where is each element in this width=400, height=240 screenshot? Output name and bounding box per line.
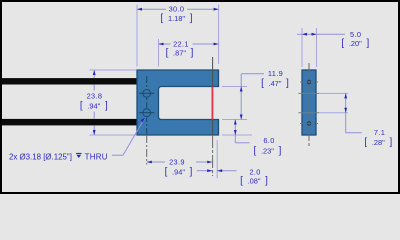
dimension 7.1 right [320,92,348,94]
extension line right edge (x=218.6) above part [218,5,220,65]
svg-text:[ .47" ]: [ .47" ] [261,78,289,89]
svg-text:[ .87" ]: [ .87" ] [166,48,194,59]
dimension 23.9 bottom [147,161,165,163]
wire bottom [2,119,138,126]
svg-text:11.9: 11.9 [268,69,283,78]
optical axis red line [211,87,213,120]
svg-text:[ .20" ]: [ .20" ] [341,38,369,49]
svg-text:23.8: 23.8 [87,92,103,101]
depth symbol [76,153,81,158]
side view hole centerline bottom [299,112,320,114]
svg-text:23.9: 23.9 [169,158,185,167]
dimension 11.9 [222,86,247,88]
svg-text:[ .28" ]: [ .28" ] [364,137,392,148]
svg-text:[ .23" ]: [ .23" ] [253,146,281,157]
dimension 23.8 left [90,69,137,71]
svg-text:5.0: 5.0 [350,30,361,39]
front view: U-shaped sensor body [137,70,219,135]
side view aperture top [307,80,310,83]
svg-text:2.0: 2.0 [249,168,260,177]
svg-text:[ 1.18" ]: [ 1.18" ] [161,13,193,24]
note leader [112,154,123,156]
svg-text:6.0: 6.0 [263,136,274,145]
side view aperture bottom [307,122,310,125]
extension line left edge (x=137) above part [136,5,138,67]
hole H2 (bottom) [143,109,151,117]
wire top [2,78,138,84]
extension line slot left (x=158.5) above part [158,39,160,67]
dimension 30.0 top [137,8,166,10]
dimension 5.0 side view [301,28,303,67]
svg-text:[ .94" ]: [ .94" ] [165,166,193,177]
dimension 2.0 [216,140,218,178]
side view vertical centerline [308,63,310,148]
svg-text:[ .08" ]: [ .08" ] [240,176,268,187]
dimension 22.1 [159,43,171,45]
optical axis centerline (vertical, x=212.6) [212,57,214,135]
svg-text:[ .94" ]: [ .94" ] [80,100,108,111]
dimension 6.0 [222,134,252,136]
side view hole centerline top [299,92,320,94]
hole H1 (top) [143,89,151,97]
page border frame [1,1,399,193]
svg-text:7.1: 7.1 [374,128,385,137]
side view body [302,70,316,135]
svg-text:30.0: 30.0 [169,5,185,14]
hole centerline vertical (x=146.7) [146,76,148,134]
svg-text:2x Ø3.18 [Ø.125"]: 2x Ø3.18 [Ø.125"] [9,153,72,162]
svg-text:THRU: THRU [85,153,108,162]
